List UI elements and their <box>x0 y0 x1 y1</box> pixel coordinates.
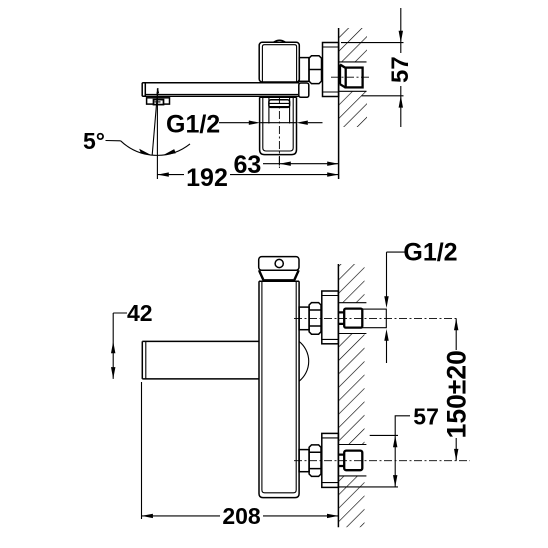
top union nut facet lines <box>309 310 321 326</box>
wall hatch upper (top view) <box>339 28 367 62</box>
dim 42 arrow up <box>111 341 115 353</box>
top union neck (bold) <box>338 312 344 324</box>
dim 150+-20 line <box>455 318 457 460</box>
dim 57 (front) extension bottom <box>338 486 398 488</box>
svg-text:57: 57 <box>387 56 414 83</box>
top union escutcheon <box>322 291 339 344</box>
lower body inner wall <box>263 97 293 151</box>
dim 150+-20 arrow up <box>454 318 458 330</box>
dim 192 extension line at spout tip <box>156 89 158 180</box>
wall union centerline (top view) <box>331 76 370 78</box>
valve body (top view) <box>259 42 299 82</box>
dim 57 (top view) extension top <box>341 42 404 44</box>
G1/2 leader vertical (front view) <box>386 252 388 363</box>
wall hatch band 3 (front view) <box>338 476 364 527</box>
main body top edge <box>259 280 299 282</box>
dim 57 (top view) arrow up <box>399 96 403 108</box>
svg-text:192: 192 <box>186 164 228 192</box>
5 degree leader <box>106 140 121 142</box>
spout inner bottom line <box>145 93 298 95</box>
top union hex nut <box>309 303 321 335</box>
screw dome on body top <box>274 40 286 42</box>
top union escutcheon chamfers <box>322 296 339 340</box>
aerator insert slot <box>155 101 161 103</box>
diverter knob mid line <box>269 102 290 104</box>
diverter knob (top view) <box>269 100 290 108</box>
valve body inner contour <box>262 45 296 82</box>
bottom union escutcheon chamfers <box>322 438 339 483</box>
svg-text:208: 208 <box>222 503 261 529</box>
dim 57 (front) leader <box>395 416 410 436</box>
5 degree tilted line <box>152 88 158 155</box>
spout (front view) <box>142 341 259 379</box>
lower body centerline <box>278 96 280 168</box>
wall escutcheon flange (top view) <box>323 43 339 97</box>
handle cap (front view) <box>259 257 299 271</box>
G1/2 arrow left (top view) <box>296 121 307 125</box>
5 degree arc <box>121 141 190 156</box>
top union stub <box>299 307 309 330</box>
bottom union nut facet lines <box>309 452 321 468</box>
bottom union wall block (bold) <box>344 451 362 471</box>
dim 63 arrow right <box>327 162 338 166</box>
body step collar <box>299 58 309 82</box>
dim 57 (front) arrow down <box>393 475 397 487</box>
main body inner walls <box>262 281 296 493</box>
dim 192 arrow right <box>327 172 338 176</box>
dim 63 arrow left <box>279 162 290 166</box>
spout end cap (top view) <box>299 83 309 97</box>
5 degree arc arrow right <box>163 149 176 155</box>
5 degree tilted line arrow <box>156 88 159 94</box>
G1/2 arrow down (front view) <box>384 296 388 308</box>
dim 57 (front) extension top <box>370 434 398 436</box>
wall hatch lower (top view) <box>339 91 367 127</box>
dim 192 arrow left <box>157 172 168 176</box>
wall recess edges bottom union <box>338 445 366 476</box>
top union centerline <box>294 317 456 319</box>
hex nut (top view) <box>309 56 322 84</box>
dim 192 line <box>157 174 338 176</box>
aerator (top view) <box>147 98 170 104</box>
wall recess top edge (top view) <box>339 61 367 63</box>
bottom union neck (bold) <box>338 455 344 466</box>
dim 63 center tick <box>278 157 280 166</box>
dim 57 (top view) line <box>400 8 402 127</box>
svg-text:G1/2: G1/2 <box>166 111 220 139</box>
svg-text:150±20: 150±20 <box>441 350 471 438</box>
spout (top view) <box>142 82 299 84</box>
wall union block (top view) <box>346 68 363 88</box>
dim 57 (front) arrow up <box>393 435 397 447</box>
main body (front view) <box>259 281 299 497</box>
lower body outer (top view) <box>260 97 297 154</box>
wall recess edges top union <box>338 303 366 334</box>
dim 42 arrow down <box>111 367 115 379</box>
lower body bore lines <box>269 97 290 123</box>
lower body top edge <box>260 96 297 98</box>
dim 208 line <box>142 515 339 517</box>
dim 57 (front) line <box>394 435 396 487</box>
dim 150+-20 arrow down <box>454 449 458 461</box>
bottom union centerline <box>294 460 470 462</box>
svg-text:42: 42 <box>127 300 153 326</box>
wall recess bottom edge (top view) <box>339 90 367 92</box>
flange chamfer lines (top view) <box>323 47 339 92</box>
top union pipe nipple <box>362 309 386 328</box>
top union wall block (bold) <box>344 309 362 328</box>
svg-text:5°: 5° <box>83 128 105 154</box>
G1/2 arrow up (front view) <box>384 329 388 341</box>
spout connection bulge <box>299 341 309 381</box>
dim 57 (top view) extension bottom <box>362 95 404 97</box>
wall hatch band 1 (front view) <box>338 264 364 303</box>
dim 42 leader <box>113 313 127 379</box>
svg-text:G1/2: G1/2 <box>403 239 457 267</box>
dim 208 arrow left <box>142 514 153 518</box>
dim 63 line <box>263 163 339 165</box>
hex nut facet line <box>309 69 322 71</box>
G1/2 leader line (top view) <box>219 122 323 124</box>
G1/2 leader horizontal (front view) <box>387 251 405 253</box>
handle skirt bold edges <box>259 271 298 280</box>
spout tip inner line <box>145 341 147 379</box>
dim 57 (top view) arrow down <box>399 31 403 43</box>
wall face line (front view) <box>337 264 339 527</box>
bottom union stub <box>299 450 309 472</box>
dim 208 arrow right <box>327 514 338 518</box>
wall face line (top view) <box>338 28 340 179</box>
handle screw circle <box>275 259 283 267</box>
bottom union hex nut <box>309 445 321 477</box>
dim 208 extension at spout tip <box>141 382 143 519</box>
bottom union escutcheon <box>322 433 339 487</box>
5 degree arc arrow left <box>139 149 151 155</box>
handle skirt trapezoid <box>259 270 299 280</box>
svg-text:57: 57 <box>413 404 439 430</box>
wall union neck (top view) <box>340 65 346 88</box>
aerator insert <box>154 100 164 105</box>
G1/2 arrow right (top view) <box>249 121 260 125</box>
diverter knob bottom bold edge <box>269 106 289 108</box>
wall hatch band 2 (front view) <box>338 334 364 445</box>
